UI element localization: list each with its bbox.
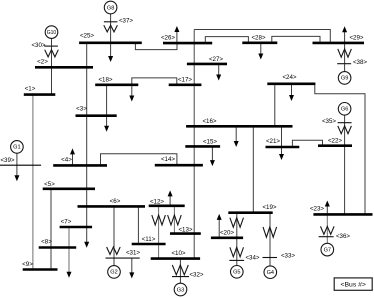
bus 25	[79, 41, 142, 44]
svg-text:<35>: <35>	[322, 118, 336, 125]
generator G10	[45, 26, 58, 39]
bus 27	[187, 63, 227, 66]
svg-text:G4: G4	[267, 270, 274, 276]
svg-text:<7>: <7>	[61, 219, 72, 226]
bus 5	[43, 188, 95, 191]
svg-text:<19>: <19>	[262, 204, 276, 211]
svg-text:<4>: <4>	[61, 156, 72, 163]
load arrow load bus 16	[235, 126, 237, 142]
svg-text:<1>: <1>	[25, 85, 36, 92]
generator G4	[264, 266, 277, 279]
svg-text:<27>: <27>	[209, 56, 223, 63]
transformer winding T 12-13	[168, 215, 182, 225]
transformer winding T 25-37	[104, 25, 118, 32]
svg-text:G6: G6	[341, 107, 348, 113]
bus 26	[163, 42, 212, 45]
load arrow load bus 26 (up)	[176, 31, 178, 43]
svg-text:G1: G1	[13, 145, 20, 151]
svg-text:<12>: <12>	[150, 198, 164, 205]
bus 20	[211, 237, 243, 240]
svg-text:<25>: <25>	[80, 33, 94, 40]
svg-text:<32>: <32>	[189, 271, 203, 278]
bus 13	[170, 232, 201, 235]
generator G2	[108, 266, 121, 279]
generator bus bar bus 37	[104, 21, 118, 23]
bus 29	[313, 42, 365, 45]
bus 3	[76, 114, 117, 117]
load arrow load bus 24	[291, 84, 293, 96]
svg-text:<14>: <14>	[161, 156, 175, 163]
bus 12	[149, 205, 185, 208]
wire line 16-24	[274, 84, 276, 127]
svg-text:<38>: <38>	[353, 59, 367, 66]
wire line 2-25	[86, 43, 88, 68]
load arrow load bus 27	[218, 64, 220, 76]
load arrow load bus 39	[16, 165, 18, 176]
generator bus bar bus 38	[337, 63, 351, 65]
wire generator lead G1-bus39	[16, 153, 18, 165]
bus 4	[53, 164, 107, 167]
wire line 16-21	[281, 126, 283, 147]
generator bus bar bus 32	[172, 276, 189, 278]
svg-text:<36>: <36>	[336, 233, 350, 240]
transformer winding T 23-36	[321, 226, 335, 234]
generator G7	[321, 243, 334, 256]
wire line 12-13	[173, 206, 175, 234]
load arrow load bus 3	[106, 116, 108, 127]
load arrow load bus 4 (up)	[72, 153, 74, 165]
bus 6	[78, 205, 146, 208]
generator G8	[104, 1, 117, 14]
transformer winding T 2-30	[45, 50, 59, 57]
generator bus bar bus 31	[106, 257, 140, 259]
load arrow load bus 25	[110, 43, 112, 57]
svg-text:<11>: <11>	[142, 236, 156, 243]
load arrow load bus 21	[281, 147, 283, 155]
svg-text:G10: G10	[47, 30, 57, 36]
transformer winding T 12-11	[152, 215, 166, 225]
wire line 1-2	[51, 67, 53, 94]
transformer winding T 10-32	[172, 265, 188, 275]
svg-text:<31>: <31>	[126, 250, 140, 257]
wire line 17-18	[132, 78, 177, 85]
transformer winding T 6-31	[107, 247, 121, 254]
wire line 26-28	[205, 37, 248, 44]
wire generator lead G2-bus6	[113, 206, 115, 265]
wire line 23-24	[315, 84, 365, 215]
svg-text:<29>: <29>	[349, 34, 363, 41]
svg-text:<3>: <3>	[76, 106, 87, 113]
load arrow load bus 18	[131, 85, 133, 97]
wire generator lead G4 chain 19-33	[269, 213, 271, 266]
bus 8	[39, 246, 76, 249]
generator bus bar bus 36	[319, 236, 334, 238]
wire line 12-11 / 10-11	[158, 206, 160, 259]
transformer winding T 19-33	[263, 227, 277, 237]
load arrow load bus 8	[68, 271, 70, 274]
load arrow load bus 7	[86, 241, 88, 244]
wire line 1-39 / 9-39	[32, 95, 34, 270]
svg-text:<8>: <8>	[41, 239, 52, 246]
svg-text:G3: G3	[177, 287, 184, 293]
generator bus bar bus 33	[263, 257, 278, 259]
load arrow load bus 31	[131, 258, 133, 273]
wire generator lead G10-bus2	[51, 38, 53, 67]
bus 17	[169, 84, 202, 87]
bus 2	[35, 66, 93, 69]
load arrow load bus 20 (up)	[218, 219, 220, 238]
svg-text:G5: G5	[233, 270, 240, 276]
svg-text:<26>: <26>	[161, 34, 175, 41]
load arrow load bus 12 (up)	[169, 195, 171, 205]
transformer winding T 29-38	[338, 49, 352, 57]
svg-text:<23>: <23>	[310, 205, 324, 212]
wire line 25-26	[135, 43, 177, 50]
bus 22	[318, 144, 352, 147]
svg-text:<13>: <13>	[178, 226, 192, 233]
generator G6	[338, 103, 351, 116]
wire line 3-18	[106, 85, 108, 116]
svg-text:<28>: <28>	[251, 35, 265, 42]
svg-text:<39>: <39>	[0, 157, 14, 164]
wire line 16-19	[252, 126, 254, 212]
transformer winding T 19-20	[230, 218, 244, 228]
svg-text:G7: G7	[324, 247, 331, 253]
generator bus bar bus 35	[338, 122, 352, 124]
svg-text:<33>: <33>	[281, 253, 295, 260]
bus 19	[228, 211, 272, 214]
svg-text:<18>: <18>	[98, 76, 112, 83]
bus 7	[60, 226, 93, 229]
bus 18	[95, 84, 138, 87]
bus 39	[0, 164, 41, 166]
svg-text:<2>: <2>	[37, 59, 48, 66]
bus 10	[151, 257, 200, 260]
bus 9	[23, 268, 58, 271]
bus 23	[313, 213, 372, 216]
wire line 4-14	[101, 154, 177, 166]
bus 21	[266, 146, 300, 149]
wire line 28-29	[272, 36, 320, 43]
svg-text:<5>: <5>	[44, 181, 55, 188]
svg-text:G2: G2	[110, 270, 117, 276]
transformer winding T 22-35	[338, 126, 352, 134]
wire generator lead G3-bus10	[179, 259, 181, 284]
generator bus bar bus 34	[229, 259, 244, 261]
load arrow load bus 29 (up)	[344, 31, 346, 43]
svg-text:<20>: <20>	[220, 229, 234, 236]
bus 16	[186, 125, 292, 128]
svg-text:<6>: <6>	[110, 198, 121, 205]
load arrow load bus 28	[260, 43, 262, 55]
svg-text:<30>: <30>	[31, 42, 45, 49]
legend box Bus #	[334, 278, 372, 290]
svg-text:G8: G8	[107, 5, 114, 11]
wire generator lead G9-bus29	[344, 43, 346, 72]
wire line 6-11	[137, 206, 139, 244]
wire generator lead G5 chain 19-20-34	[236, 213, 238, 266]
wire line 26-29	[194, 30, 330, 43]
svg-text:<17>: <17>	[178, 76, 192, 83]
generator bus bar bus 30	[44, 45, 58, 47]
bus 14	[155, 164, 203, 167]
svg-text:<34>: <34>	[245, 255, 259, 262]
wire generator lead G7-bus23	[326, 214, 328, 243]
generator G5	[231, 266, 244, 279]
transformer winding T 20-34	[230, 247, 244, 256]
svg-text:<37>: <37>	[119, 18, 133, 25]
bus 28	[242, 41, 277, 44]
wire line 7-8	[68, 227, 70, 272]
generator G3	[174, 283, 187, 296]
svg-text:<16>: <16>	[202, 118, 216, 125]
svg-text:<22>: <22>	[328, 138, 342, 145]
generator G9	[338, 72, 351, 85]
wire line 5-8 / 8-9	[50, 189, 52, 270]
generator G1	[11, 141, 24, 154]
svg-text:<10>: <10>	[171, 250, 185, 257]
load arrow load bus 15	[211, 146, 213, 161]
wire line 2-3-4-5-6-7	[86, 67, 88, 242]
bus 15	[185, 145, 220, 148]
wire line 26-27-17-16-15-14-13-10	[193, 30, 195, 259]
svg-text:<15>: <15>	[203, 138, 217, 145]
svg-text:<9>: <9>	[22, 261, 33, 268]
wire generator lead G6-bus22 / line 22-23	[344, 115, 346, 214]
wire generator lead G8-bus25	[110, 14, 112, 43]
bus 24	[267, 83, 315, 86]
bus 1	[24, 93, 56, 96]
svg-text:<21>: <21>	[266, 138, 280, 145]
svg-text:G9: G9	[341, 76, 348, 82]
svg-text:<24>: <24>	[282, 74, 296, 81]
wire line 21-22	[292, 140, 322, 147]
load arrow load bus 23 (up)	[326, 206, 328, 215]
bus 11	[132, 243, 166, 246]
svg-text:<Bus #>: <Bus #>	[341, 282, 366, 289]
